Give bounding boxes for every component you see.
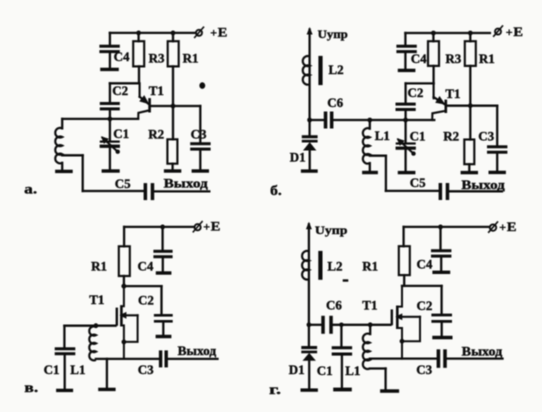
svg-text:L2: L2: [327, 258, 342, 273]
svg-text:г.: г.: [269, 383, 281, 398]
svg-text:R3: R3: [445, 51, 461, 66]
svg-text:Е: Е: [218, 25, 228, 39]
svg-text:R2: R2: [148, 126, 164, 141]
svg-text:+: +: [203, 220, 210, 234]
svg-text:Uупр: Uупр: [315, 223, 348, 237]
svg-text:+: +: [506, 25, 513, 39]
svg-text:D1: D1: [289, 362, 305, 377]
svg-text:C2: C2: [138, 292, 154, 307]
svg-text:C2: C2: [112, 83, 128, 98]
svg-text:C4: C4: [138, 258, 154, 273]
svg-text:C1: C1: [44, 362, 60, 377]
svg-text:Выход: Выход: [461, 178, 505, 192]
svg-text:Выход: Выход: [164, 176, 209, 190]
svg-text:L1: L1: [70, 362, 85, 377]
svg-text:Uупр: Uупр: [318, 27, 349, 41]
svg-text:T1: T1: [149, 83, 164, 98]
svg-text:R1: R1: [91, 258, 107, 273]
svg-text:C5: C5: [115, 176, 131, 191]
svg-text:C6: C6: [327, 95, 343, 110]
svg-text:C3: C3: [138, 362, 154, 377]
svg-text:R2: R2: [443, 129, 459, 144]
svg-text:C1: C1: [317, 363, 333, 378]
svg-text:L1: L1: [375, 128, 390, 143]
svg-text:T1: T1: [362, 297, 377, 312]
svg-text:R3: R3: [149, 51, 165, 66]
svg-text:C3: C3: [191, 126, 207, 141]
svg-text:Выход: Выход: [462, 345, 503, 359]
svg-text:C2: C2: [408, 85, 424, 100]
svg-text:Выход: Выход: [178, 344, 217, 358]
svg-text:T1: T1: [89, 292, 104, 307]
svg-text:C6: C6: [326, 297, 342, 312]
svg-text:C3: C3: [416, 362, 432, 377]
svg-text:C1: C1: [410, 129, 426, 144]
svg-text:C4: C4: [114, 49, 130, 64]
svg-text:Е: Е: [211, 220, 221, 234]
svg-text:C4: C4: [417, 256, 433, 271]
svg-text:C1: C1: [113, 126, 129, 141]
svg-text:б.: б.: [270, 184, 282, 199]
svg-text:R1: R1: [183, 51, 199, 66]
svg-text:C4: C4: [411, 51, 427, 66]
svg-text:R1: R1: [362, 258, 378, 273]
svg-text:C5: C5: [410, 175, 426, 190]
svg-text:L2: L2: [329, 62, 344, 77]
svg-text:T1: T1: [445, 86, 460, 101]
svg-text:в.: в.: [24, 381, 38, 396]
svg-text:Е: Е: [507, 220, 517, 234]
svg-text:+: +: [210, 25, 217, 39]
svg-text:D1: D1: [290, 150, 306, 165]
svg-text:+: +: [499, 220, 506, 234]
svg-text:а.: а.: [24, 182, 37, 197]
svg-text:Е: Е: [513, 25, 523, 39]
svg-text:R1: R1: [479, 51, 495, 66]
svg-text:C3: C3: [478, 129, 494, 144]
svg-text:L1: L1: [345, 363, 360, 378]
svg-text:C2: C2: [417, 298, 433, 313]
